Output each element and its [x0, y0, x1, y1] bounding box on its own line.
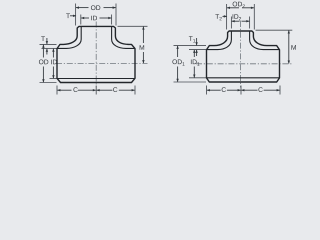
- label OD2 fig2: [233, 2, 245, 8]
- extension line M top fig1: [118, 25, 148, 27]
- dimension ID1 vertical fig2: [193, 50, 195, 57]
- extension line left outer top: [40, 43, 57, 45]
- extension bar ID branch right: [111, 15, 113, 25]
- bore line bottom fig2: [207, 77, 280, 79]
- extension line left bore bottom fig2: [189, 77, 206, 79]
- label T2 fig2: [215, 14, 221, 20]
- extension line left bore top fig2: [189, 49, 206, 51]
- extension line OD2 branch left: [226, 4, 228, 30]
- extension line OD branch left: [75, 4, 77, 26]
- leader T2 fig2: [223, 15, 227, 17]
- label C left fig1: [73, 87, 77, 92]
- dimension OD vertical left fig1: [42, 45, 44, 58]
- extension bar ID2 left: [230, 17, 232, 29]
- dimension T left fig1 arrows: [46, 38, 48, 44]
- label T left fig1: [41, 36, 45, 41]
- extension line left outer top fig2: [174, 45, 207, 47]
- centerline vertical fig1: [95, 22, 97, 88]
- extension line left bore top: [42, 47, 57, 49]
- extension line left outer bottom: [40, 82, 57, 84]
- dimension ID2 fig2: [232, 20, 240, 22]
- leader T top fig1: [70, 15, 76, 17]
- label T top fig1: [66, 13, 70, 18]
- label C right fig2: [258, 87, 262, 92]
- label OD1 fig2: [172, 59, 184, 65]
- dimension M fig2: [288, 31, 290, 48]
- dimension M fig1: [142, 27, 144, 43]
- outline body fig1: [57, 26, 135, 82]
- label M fig2: [291, 45, 295, 50]
- dimension OD1 vertical fig2: [177, 46, 179, 57]
- dimension C bottom fig1: [56, 86, 58, 95]
- label C left fig2: [222, 87, 226, 92]
- bore line left fig1: [57, 27, 81, 49]
- extension bar ID branch left: [80, 15, 82, 25]
- centerline vertical fig2: [240, 21, 242, 88]
- label ID top fig1: [91, 16, 97, 21]
- bore line bottom fig1: [57, 78, 135, 80]
- extension line OD2 branch right: [253, 4, 255, 30]
- extension bar ID2 right: [249, 17, 251, 29]
- label T1 fig2: [189, 36, 195, 42]
- extension line M top fig2: [256, 29, 293, 31]
- label M fig1: [140, 45, 144, 50]
- centerline horizontal fig1: [56, 62, 148, 64]
- dimension T1 fig2 arrows: [196, 38, 198, 45]
- bore line right fig1: [112, 27, 135, 49]
- extension line OD branch right: [115, 4, 117, 26]
- label C right fig1: [113, 87, 117, 92]
- outline body fig2: [207, 31, 280, 82]
- dimension OD top fig1: [76, 7, 89, 9]
- centerline horizontal fig2: [196, 63, 293, 65]
- label ID2 fig2: [233, 14, 242, 20]
- extension line left outer bottom fig2: [174, 81, 207, 83]
- label ID1 fig2: [191, 59, 200, 65]
- dimension C bottom fig2: [206, 86, 208, 95]
- label OD left fig1: [39, 60, 48, 65]
- label OD top fig1: [91, 5, 100, 10]
- label ID left fig1: [51, 60, 57, 65]
- dimension OD2 top fig2: [227, 7, 239, 9]
- bore line right fig2: [250, 32, 280, 50]
- bore line left fig2: [207, 32, 232, 50]
- dimension ID top fig1: [81, 17, 89, 19]
- extension line left bore bottom: [50, 78, 57, 80]
- dimension ID vertical left fig1: [52, 49, 54, 58]
